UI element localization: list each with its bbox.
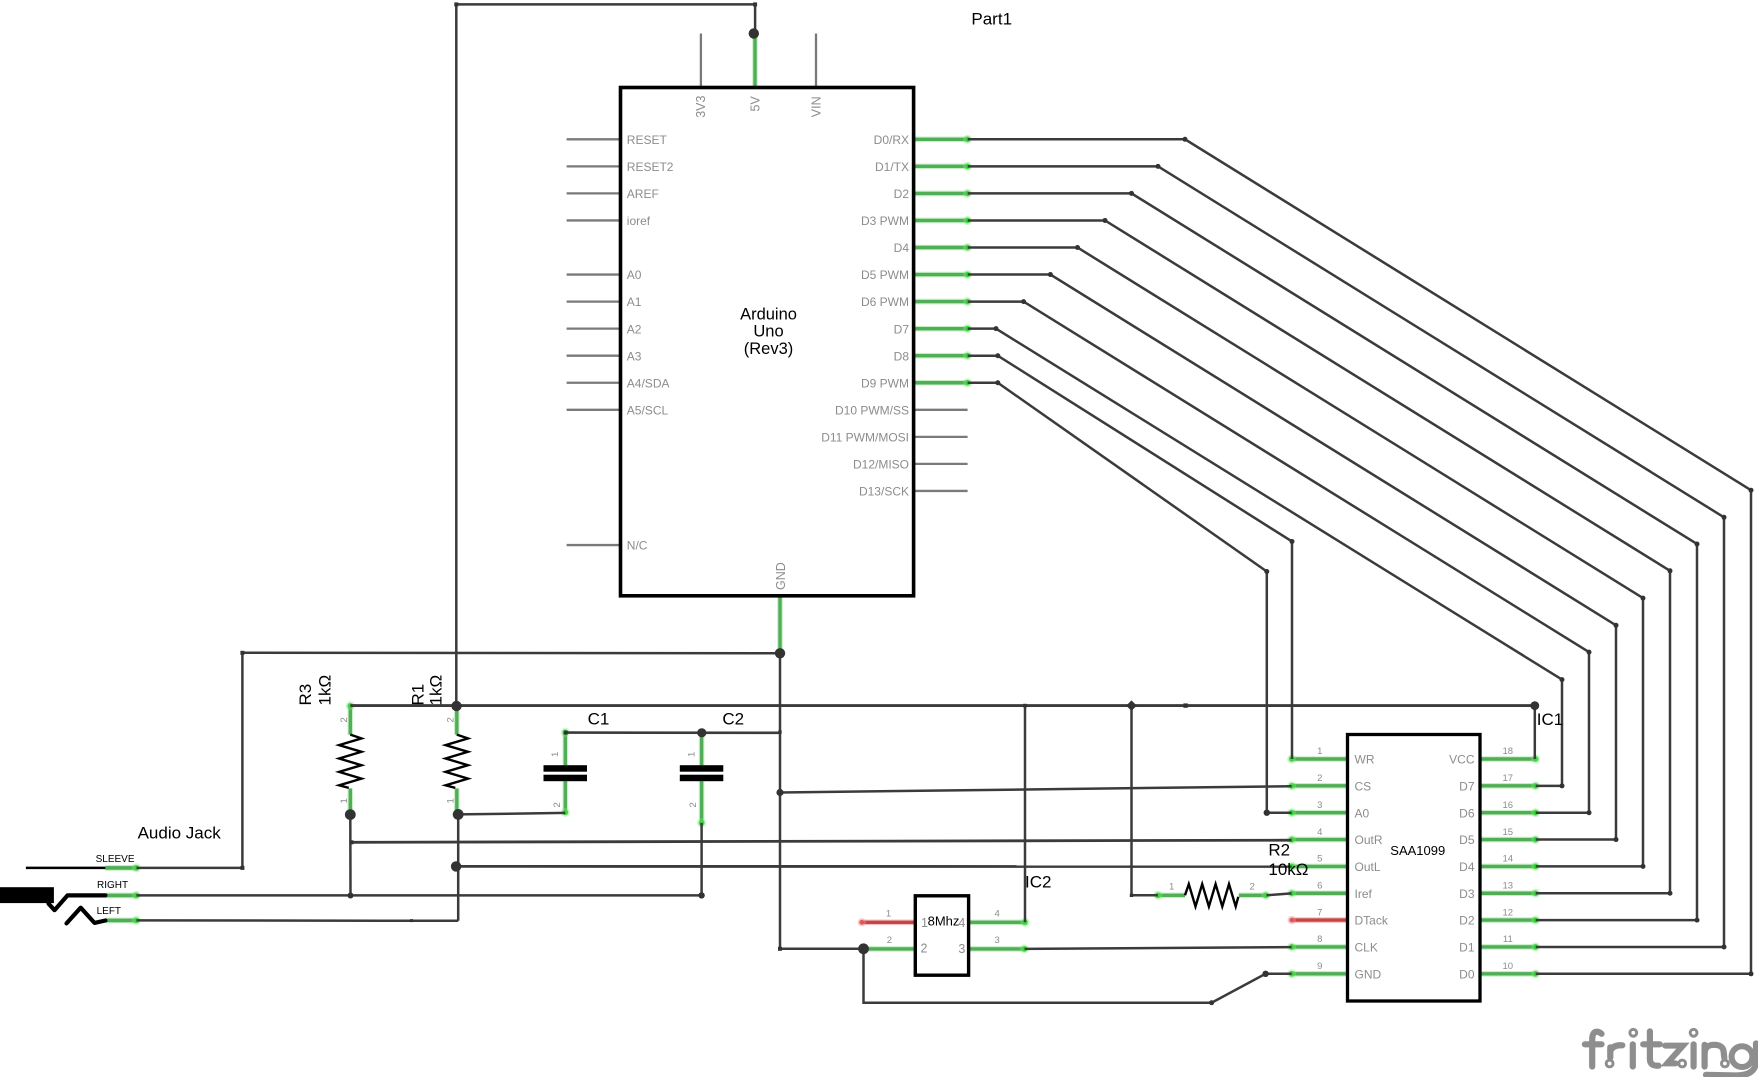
svg-text:R3: R3 xyxy=(296,684,315,706)
svg-text:GND: GND xyxy=(1355,967,1382,981)
svg-text:Audio Jack: Audio Jack xyxy=(138,824,222,843)
svg-text:15: 15 xyxy=(1503,827,1514,838)
svg-text:D0/RX: D0/RX xyxy=(874,133,909,147)
svg-text:12: 12 xyxy=(1503,907,1514,918)
svg-text:SAA1099: SAA1099 xyxy=(1390,843,1445,858)
svg-text:2: 2 xyxy=(1317,773,1322,784)
svg-text:3: 3 xyxy=(1317,800,1322,811)
svg-text:RESET: RESET xyxy=(627,133,668,147)
svg-text:VIN: VIN xyxy=(809,96,823,117)
svg-text:CS: CS xyxy=(1355,779,1372,793)
svg-text:2: 2 xyxy=(688,802,699,807)
svg-text:17: 17 xyxy=(1503,773,1514,784)
svg-text:2: 2 xyxy=(552,802,563,807)
svg-text:4: 4 xyxy=(1317,827,1322,838)
svg-text:D1: D1 xyxy=(1459,941,1475,955)
svg-text:R2: R2 xyxy=(1268,840,1290,859)
svg-text:2: 2 xyxy=(921,942,928,956)
svg-text:D2: D2 xyxy=(1459,914,1475,928)
svg-text:D1/TX: D1/TX xyxy=(875,160,909,174)
svg-text:Part1: Part1 xyxy=(971,10,1012,29)
svg-text:1kΩ: 1kΩ xyxy=(427,675,446,706)
svg-text:2: 2 xyxy=(887,935,892,946)
svg-text:6: 6 xyxy=(1317,880,1322,891)
svg-text:7: 7 xyxy=(1317,907,1322,918)
svg-text:A0: A0 xyxy=(1355,806,1370,820)
svg-text:WR: WR xyxy=(1355,753,1375,767)
svg-text:8Mhz: 8Mhz xyxy=(928,914,960,929)
svg-text:IC1: IC1 xyxy=(1537,710,1563,729)
svg-text:LEFT: LEFT xyxy=(97,906,121,917)
svg-text:VCC: VCC xyxy=(1449,753,1475,767)
svg-text:C2: C2 xyxy=(722,710,744,729)
svg-text:1: 1 xyxy=(886,908,891,919)
svg-text:RIGHT: RIGHT xyxy=(97,880,128,891)
svg-text:ioref: ioref xyxy=(627,214,651,228)
svg-text:18: 18 xyxy=(1503,746,1514,757)
svg-text:D6: D6 xyxy=(1459,806,1475,820)
svg-text:1: 1 xyxy=(686,752,697,757)
svg-text:OutL: OutL xyxy=(1355,860,1381,874)
svg-text:D7: D7 xyxy=(894,322,910,336)
svg-text:C1: C1 xyxy=(588,710,610,729)
svg-text:Uno: Uno xyxy=(753,323,783,341)
svg-text:4: 4 xyxy=(995,908,1000,919)
svg-text:10: 10 xyxy=(1503,961,1514,972)
svg-text:A5/SCL: A5/SCL xyxy=(627,403,669,417)
svg-text:RESET2: RESET2 xyxy=(627,160,674,174)
svg-text:D7: D7 xyxy=(1459,779,1475,793)
svg-text:3: 3 xyxy=(995,935,1000,946)
svg-text:10kΩ: 10kΩ xyxy=(1268,860,1308,879)
svg-text:1: 1 xyxy=(445,798,456,803)
svg-text:CLK: CLK xyxy=(1355,941,1378,955)
svg-text:D4: D4 xyxy=(1459,860,1475,874)
svg-text:5V: 5V xyxy=(748,96,762,112)
svg-text:2: 2 xyxy=(1250,882,1255,893)
svg-text:OutR: OutR xyxy=(1355,833,1383,847)
svg-text:2: 2 xyxy=(339,717,350,722)
svg-text:D10 PWM/SS: D10 PWM/SS xyxy=(835,403,909,417)
svg-text:D12/MISO: D12/MISO xyxy=(853,458,909,472)
svg-text:16: 16 xyxy=(1503,800,1514,811)
svg-text:D3: D3 xyxy=(1459,887,1475,901)
svg-text:D4: D4 xyxy=(894,241,910,255)
svg-text:Arduino: Arduino xyxy=(740,305,797,323)
svg-text:DTack: DTack xyxy=(1355,914,1389,928)
svg-text:5: 5 xyxy=(1317,854,1322,865)
svg-text:N/C: N/C xyxy=(627,539,648,553)
svg-text:R1: R1 xyxy=(408,684,427,706)
svg-text:1: 1 xyxy=(550,752,561,757)
svg-text:3: 3 xyxy=(958,942,965,956)
svg-text:A3: A3 xyxy=(627,349,642,363)
svg-text:GND: GND xyxy=(774,562,788,590)
svg-text:D5: D5 xyxy=(1459,833,1475,847)
svg-text:A4/SDA: A4/SDA xyxy=(627,376,670,390)
svg-text:D3 PWM: D3 PWM xyxy=(861,214,909,228)
svg-text:A0: A0 xyxy=(627,268,642,282)
svg-text:11: 11 xyxy=(1503,934,1513,945)
svg-text:IC2: IC2 xyxy=(1025,873,1051,892)
svg-text:1: 1 xyxy=(1169,882,1174,893)
svg-text:2: 2 xyxy=(445,717,456,722)
svg-text:AREF: AREF xyxy=(627,187,659,201)
svg-text:1: 1 xyxy=(339,798,350,803)
svg-text:D9 PWM: D9 PWM xyxy=(861,376,909,390)
svg-text:1kΩ: 1kΩ xyxy=(316,675,335,706)
svg-text:14: 14 xyxy=(1503,854,1514,865)
svg-text:D13/SCK: D13/SCK xyxy=(859,485,909,499)
svg-text:D5 PWM: D5 PWM xyxy=(861,268,909,282)
svg-text:D11 PWM/MOSI: D11 PWM/MOSI xyxy=(821,430,909,444)
svg-text:3V3: 3V3 xyxy=(694,96,708,118)
svg-text:(Rev3): (Rev3) xyxy=(744,340,794,358)
svg-text:8: 8 xyxy=(1317,934,1322,945)
svg-text:D8: D8 xyxy=(894,349,910,363)
svg-text:Iref: Iref xyxy=(1355,887,1373,901)
svg-text:SLEEVE: SLEEVE xyxy=(96,854,135,865)
svg-text:9: 9 xyxy=(1317,961,1322,972)
svg-text:D2: D2 xyxy=(894,187,910,201)
svg-text:A2: A2 xyxy=(627,322,642,336)
svg-text:D0: D0 xyxy=(1459,967,1475,981)
svg-text:D6 PWM: D6 PWM xyxy=(861,295,909,309)
svg-text:A1: A1 xyxy=(627,295,642,309)
svg-text:13: 13 xyxy=(1503,880,1514,891)
svg-text:1: 1 xyxy=(1317,746,1322,757)
